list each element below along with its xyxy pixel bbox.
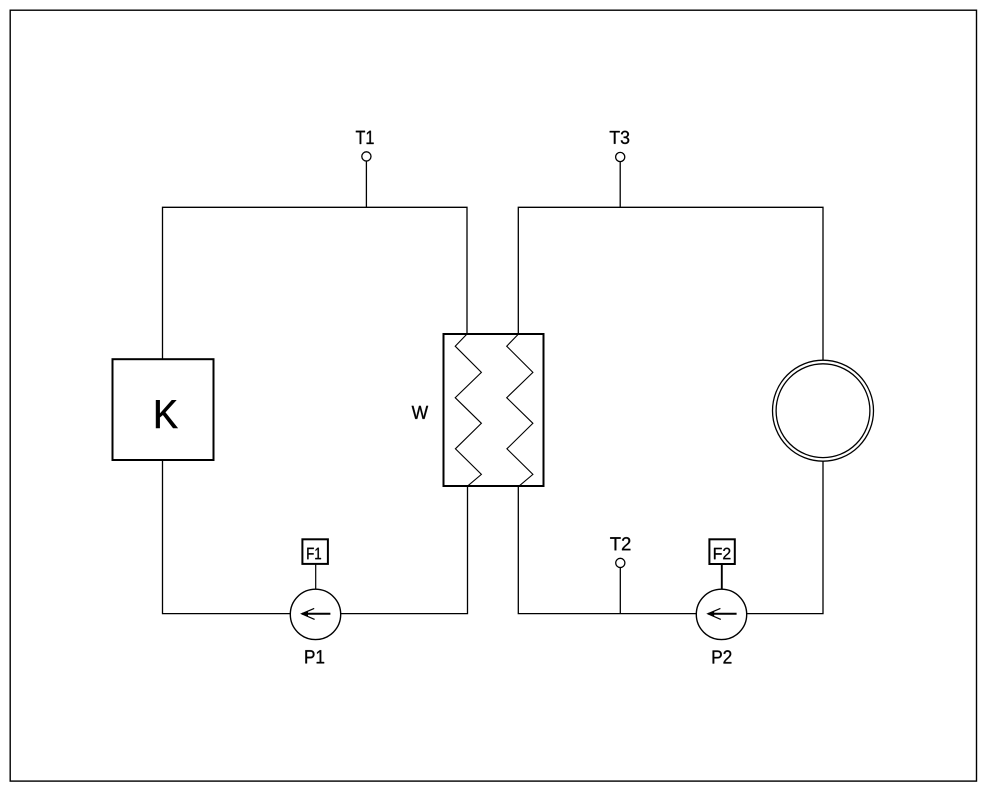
- pump P1 arrow shaft: [302, 613, 330, 615]
- label T3: [610, 131, 630, 144]
- heat exchanger W left coil zigzag: [455, 335, 481, 486]
- temperature sensor T1 stem: [365, 161, 367, 207]
- label P1: [305, 650, 324, 663]
- temperature sensor T3 stem: [619, 162, 621, 208]
- flow sensor F1 stem wire: [315, 564, 317, 589]
- pump P2 arrow shaft: [708, 613, 736, 615]
- pump P2 circle: [696, 589, 746, 639]
- label F2: [714, 548, 730, 560]
- heat exchanger W box: [444, 334, 544, 486]
- pump P2 arrow head: [708, 611, 715, 617]
- label T2: [610, 537, 630, 550]
- label P2: [713, 650, 732, 663]
- temperature sensor T2 stem: [619, 567, 621, 613]
- wire right loop bottom: vessel bottom through pump P2 to W bottom-right: [518, 461, 823, 614]
- label F1: [307, 548, 321, 560]
- wire left loop top: K top to heat exchanger W top-left inlet: [163, 207, 468, 359]
- flow sensor F2 stem wire: [721, 564, 723, 589]
- label W: [412, 406, 428, 419]
- pump P1 circle: [290, 589, 340, 639]
- temperature sensor T2 bulb: [616, 558, 625, 567]
- wire right loop top: W top-right to vessel top: [518, 207, 823, 360]
- pump P2 arrow barbs: [708, 608, 721, 619]
- label K: [156, 400, 177, 428]
- boiler K box: [113, 359, 214, 460]
- wire left loop bottom: K bottom through pump P1 to W bottom-left outlet: [163, 460, 468, 614]
- vessel outer circle: [773, 360, 874, 461]
- temperature sensor T1 bulb: [362, 152, 371, 161]
- vessel inner circle: [776, 364, 870, 458]
- pump P1 arrow head: [301, 611, 308, 617]
- heat exchanger W right coil zigzag: [507, 335, 533, 486]
- temperature sensor T3 bulb: [616, 152, 625, 161]
- flow sensor F2 box: [709, 539, 734, 564]
- label T1: [356, 131, 374, 144]
- flow sensor F1 box: [302, 539, 328, 564]
- pump P1 arrow barbs: [302, 608, 315, 619]
